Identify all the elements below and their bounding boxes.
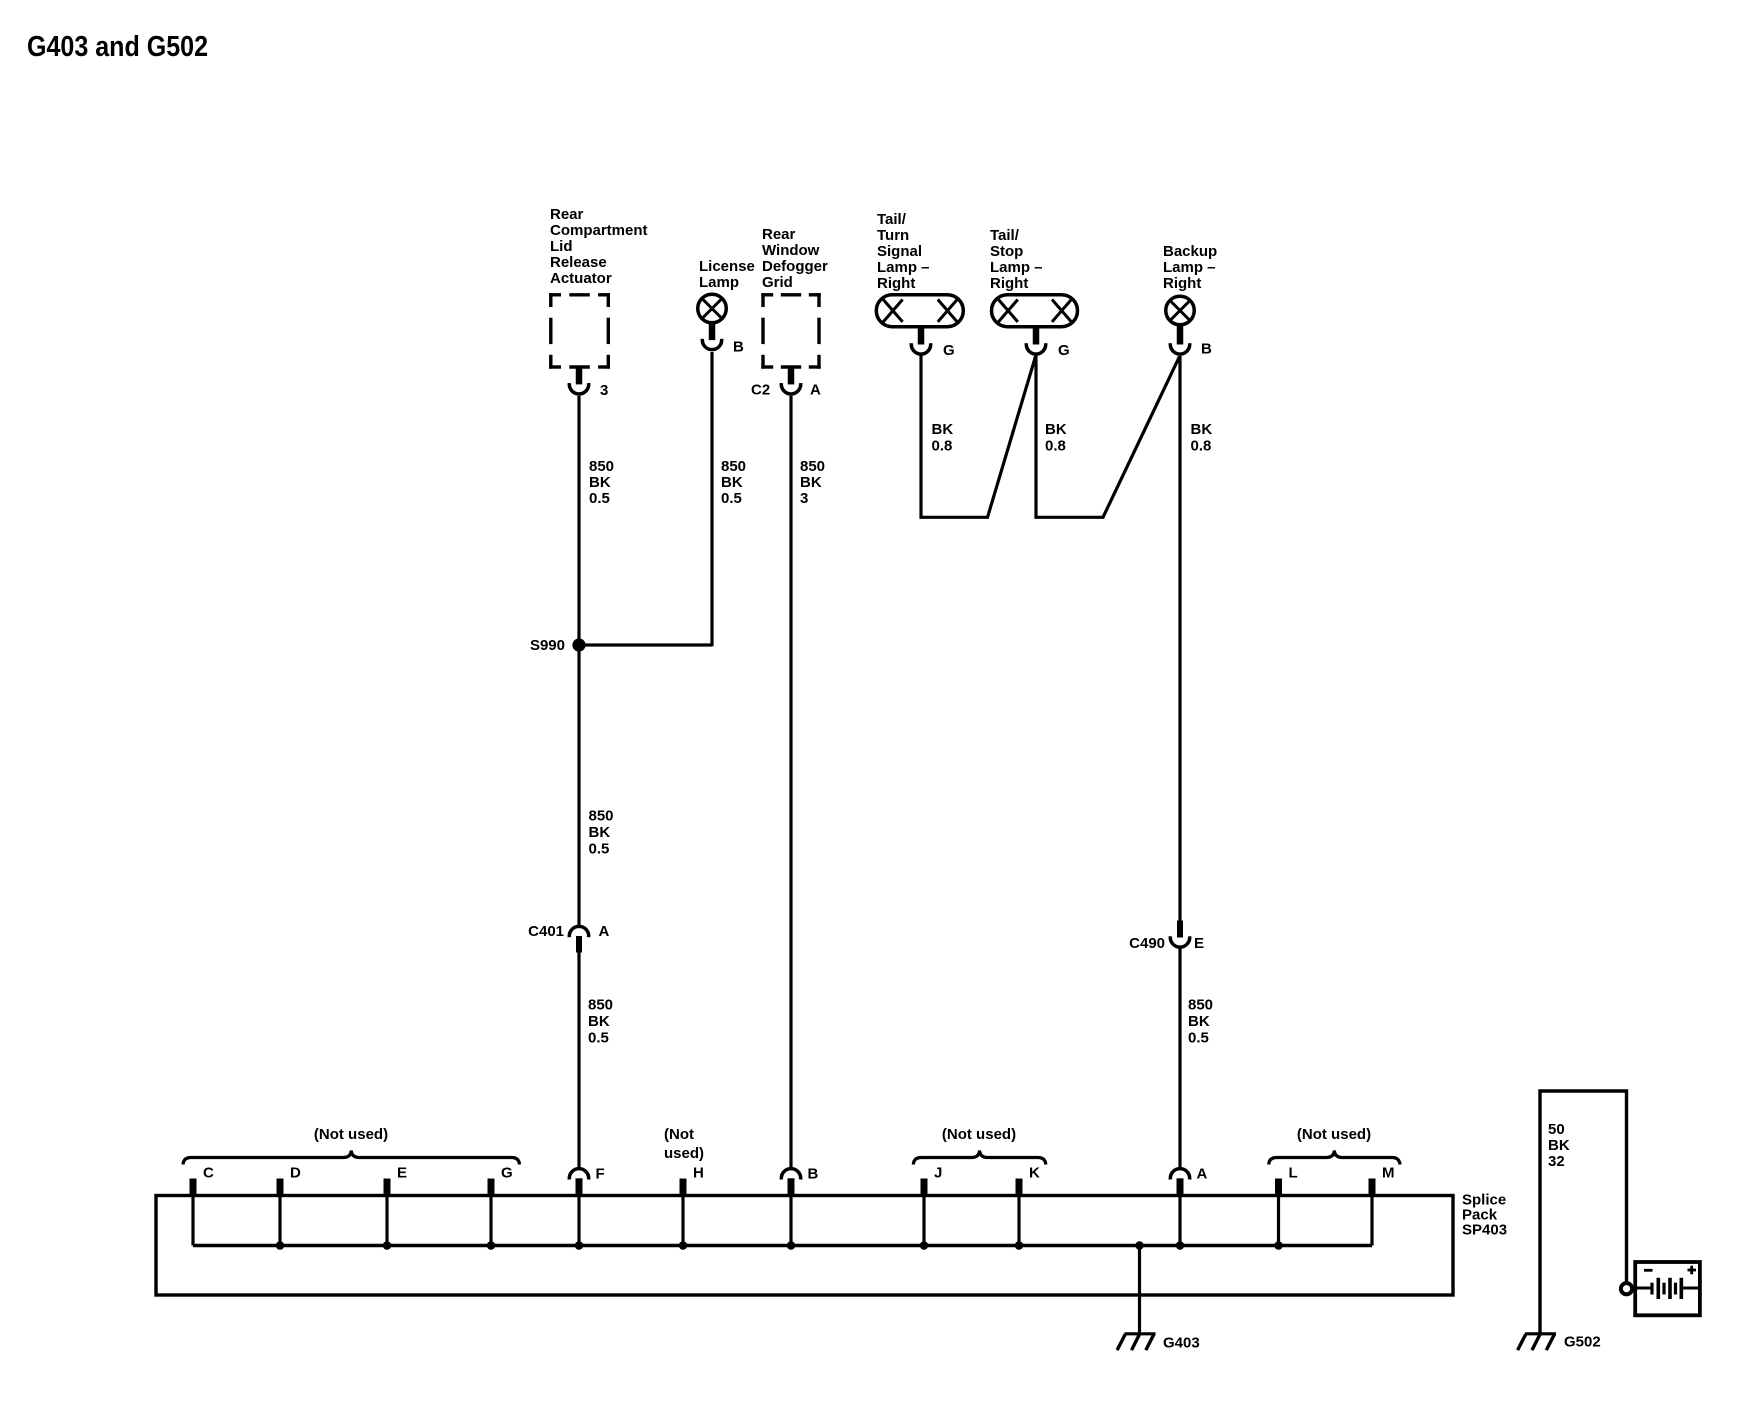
svg-text:B: B: [733, 339, 744, 356]
svg-text:M: M: [1382, 1165, 1395, 1182]
svg-text:BK: BK: [588, 1013, 610, 1030]
svg-text:3: 3: [800, 490, 808, 507]
svg-text:C: C: [203, 1165, 214, 1182]
svg-text:32: 32: [1548, 1153, 1565, 1170]
svg-text:BK: BK: [800, 474, 822, 491]
svg-text:BK: BK: [721, 474, 743, 491]
svg-text:Window: Window: [762, 242, 820, 259]
svg-text:Tail/: Tail/: [990, 227, 1020, 244]
svg-text:Rear: Rear: [550, 206, 584, 223]
svg-text:B: B: [808, 1166, 819, 1183]
svg-text:0.5: 0.5: [588, 1030, 609, 1047]
svg-text:Compartment: Compartment: [550, 222, 648, 239]
svg-text:50: 50: [1548, 1121, 1565, 1138]
svg-text:Release: Release: [550, 254, 607, 271]
svg-text:0.5: 0.5: [1188, 1030, 1209, 1047]
svg-text:Actuator: Actuator: [550, 270, 612, 287]
svg-text:used): used): [664, 1145, 704, 1162]
svg-text:0.8: 0.8: [932, 438, 953, 455]
svg-text:BK: BK: [1548, 1137, 1570, 1154]
svg-text:S990: S990: [530, 637, 565, 654]
svg-text:0.8: 0.8: [1045, 438, 1066, 455]
svg-text:Right: Right: [1163, 275, 1201, 292]
svg-text:BK: BK: [589, 474, 611, 491]
svg-text:Stop: Stop: [990, 243, 1023, 260]
svg-text:0.5: 0.5: [721, 490, 742, 507]
svg-text:C2: C2: [751, 382, 770, 399]
svg-text:(Not used): (Not used): [314, 1126, 388, 1143]
svg-text:B: B: [1201, 341, 1212, 358]
svg-text:C401: C401: [528, 923, 564, 940]
svg-text:(Not: (Not: [664, 1126, 694, 1143]
svg-text:(Not used): (Not used): [1297, 1126, 1371, 1143]
svg-text:G502: G502: [1564, 1334, 1601, 1351]
svg-text:0.5: 0.5: [589, 841, 610, 858]
svg-text:850: 850: [589, 808, 614, 825]
svg-text:850: 850: [800, 458, 825, 475]
svg-text:Rear: Rear: [762, 226, 796, 243]
svg-text:Tail/: Tail/: [877, 211, 907, 228]
svg-text:License: License: [699, 258, 755, 275]
svg-text:F: F: [596, 1166, 605, 1183]
svg-text:H: H: [693, 1165, 704, 1182]
svg-text:850: 850: [1188, 997, 1213, 1014]
svg-text:Backup: Backup: [1163, 243, 1217, 260]
svg-text:Lamp –: Lamp –: [877, 259, 930, 276]
svg-text:Lid: Lid: [550, 238, 573, 255]
svg-text:A: A: [810, 382, 821, 399]
svg-text:Grid: Grid: [762, 274, 793, 291]
svg-text:G403: G403: [1163, 1335, 1200, 1352]
svg-text:Defogger: Defogger: [762, 258, 828, 275]
svg-text:G: G: [1058, 342, 1070, 359]
svg-text:Lamp –: Lamp –: [1163, 259, 1216, 276]
svg-text:BK: BK: [932, 421, 954, 438]
svg-text:BK: BK: [589, 824, 611, 841]
svg-text:G403 and G502: G403 and G502: [27, 31, 208, 63]
svg-text:0.8: 0.8: [1191, 438, 1212, 455]
svg-text:E: E: [1194, 935, 1204, 952]
svg-text:K: K: [1029, 1165, 1040, 1182]
svg-text:J: J: [934, 1165, 942, 1182]
svg-text:850: 850: [588, 997, 613, 1014]
svg-text:G: G: [501, 1165, 513, 1182]
svg-text:C490: C490: [1129, 935, 1165, 952]
svg-text:850: 850: [589, 458, 614, 475]
svg-text:Right: Right: [877, 275, 915, 292]
svg-text:3: 3: [600, 382, 608, 399]
svg-text:Lamp: Lamp: [699, 274, 739, 291]
svg-text:BK: BK: [1045, 421, 1067, 438]
svg-text:D: D: [290, 1165, 301, 1182]
svg-text:BK: BK: [1191, 421, 1213, 438]
svg-text:Turn: Turn: [877, 227, 909, 244]
svg-text:BK: BK: [1188, 1013, 1210, 1030]
svg-text:850: 850: [721, 458, 746, 475]
svg-text:A: A: [1197, 1166, 1208, 1183]
svg-text:E: E: [397, 1165, 407, 1182]
svg-text:G: G: [943, 342, 955, 359]
svg-text:Signal: Signal: [877, 243, 922, 260]
svg-text:Lamp –: Lamp –: [990, 259, 1043, 276]
svg-text:L: L: [1289, 1165, 1298, 1182]
svg-text:(Not used): (Not used): [942, 1126, 1016, 1143]
svg-text:A: A: [599, 923, 610, 940]
svg-text:SP403: SP403: [1462, 1222, 1507, 1239]
svg-text:0.5: 0.5: [589, 490, 610, 507]
svg-text:Right: Right: [990, 275, 1028, 292]
